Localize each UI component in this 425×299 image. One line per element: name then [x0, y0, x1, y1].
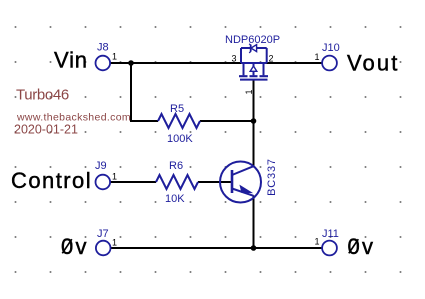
svg-text:1: 1 [244, 89, 254, 94]
resistor R5 100K [158, 103, 200, 145]
transistor BC337 [220, 158, 278, 202]
svg-text:J10: J10 [322, 42, 340, 54]
svg-text:100K: 100K [167, 133, 193, 145]
connector J9 [95, 160, 117, 189]
wire transistor emitter to 0v rail [253, 196, 255, 249]
svg-text:1: 1 [112, 172, 117, 182]
svg-text:10K: 10K [165, 193, 185, 205]
svg-text:3: 3 [232, 54, 237, 64]
wire 0v rail J7 to J11 [111, 247, 323, 249]
svg-text:0v: 0v [61, 234, 89, 259]
svg-text:1: 1 [315, 52, 320, 62]
svg-text:J9: J9 [95, 160, 107, 172]
svg-text:2020-01-21: 2020-01-21 [14, 123, 78, 137]
connector J11 [315, 228, 339, 255]
wire Vin junction down to R5 [131, 63, 158, 121]
svg-text:1: 1 [315, 237, 320, 247]
wire top rail J8 to MOSFET pin 3 [110, 62, 241, 64]
junction gate/R5 node [251, 118, 257, 124]
wire MOSFET pin 2 to J10 [267, 62, 323, 64]
svg-text:0v: 0v [348, 234, 376, 259]
svg-text:J8: J8 [97, 42, 109, 54]
wire R6 to transistor base [198, 181, 232, 183]
junction Vin/R5 node [128, 60, 134, 66]
connector J8 [96, 42, 118, 71]
svg-text:Vout: Vout [347, 51, 399, 76]
svg-text:Turbo46: Turbo46 [16, 87, 69, 104]
resistor R6 10K [156, 160, 198, 205]
wire J9 to R6 [110, 181, 156, 183]
wire R5 to gate net [200, 120, 254, 122]
svg-text:R5: R5 [170, 103, 184, 115]
net label 0v left [61, 234, 89, 259]
svg-text:1: 1 [112, 238, 117, 248]
connector J7 [96, 228, 117, 255]
svg-text:J11: J11 [322, 228, 339, 240]
wire gate net to transistor collector [253, 121, 255, 166]
mosfet NDP6020P [239, 44, 268, 80]
svg-text:Control: Control [11, 168, 92, 193]
svg-text:NDP6020P: NDP6020P [225, 34, 280, 46]
wire MOSFET gate lead down [253, 80, 255, 121]
net label 0v right [348, 234, 376, 259]
svg-text:BC337: BC337 [266, 158, 278, 196]
junction emitter/0v node [251, 245, 257, 251]
svg-text:R6: R6 [169, 160, 183, 172]
svg-text:2: 2 [269, 54, 274, 64]
svg-text:Vin: Vin [54, 48, 88, 73]
svg-text:1: 1 [112, 52, 117, 62]
connector J10 [315, 42, 340, 70]
svg-text:J7: J7 [97, 228, 109, 240]
